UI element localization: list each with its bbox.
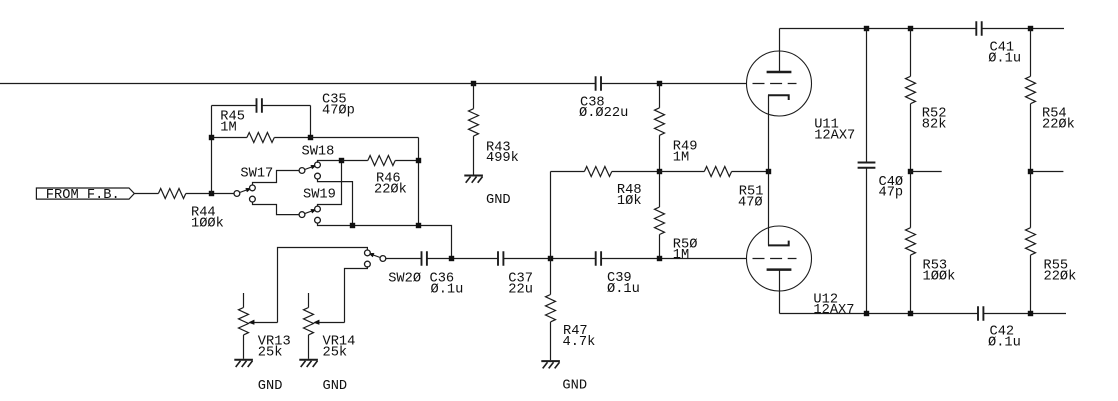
tube U12 envelope [747,226,812,291]
svg-text:GND: GND [258,379,283,394]
node junction bus/R46 vertical [416,223,421,228]
tube U11 plate lead [779,29,781,73]
svg-text:22Øk: 22Øk [1044,270,1077,285]
svg-text:1Øk: 1Øk [617,194,642,209]
wiper arrow VR14 [318,322,345,324]
tube U12 plate [767,268,792,271]
wire SW19 lower throw to bus [318,223,452,259]
resistor R52 [906,76,916,103]
node junction R46 left [339,158,344,163]
switch SW18 common contact [299,168,305,174]
switch SW19 lower throw contact [315,217,321,223]
node junction R47/R48 rail [548,256,553,261]
tube U11 envelope [747,51,812,116]
wire SW20 upper throw to VR13 wiper [278,248,368,323]
capacitor C40 [858,162,876,164]
ground at R47 [541,360,560,362]
svg-text:1M: 1M [673,248,689,263]
wire plate rail U11 to C41 [780,28,977,30]
wire SW20 common to C36 [386,258,422,260]
wire port to R44 [134,193,158,195]
capacitor C37 [497,251,499,266]
wire R51 lead right [732,171,769,173]
switch SW17 common contact [234,191,240,197]
wire R45 junction to right vertical [311,137,419,139]
tube U12 cathode [768,241,789,246]
node junction C40 bottom [864,311,869,316]
wire R43 bottom lead [473,136,475,175]
wire R44 to SW17 [186,193,234,195]
capacitor C42 [977,306,979,321]
wire C35 branch right [262,105,311,107]
wire R50 bottom lead [659,235,661,259]
wire tap stub R52/R53 [911,171,942,173]
switch SW19 upper throw contact [315,206,321,212]
capacitor C41 [975,21,977,36]
wire R47 bottom lead [550,322,552,360]
node junction R53 bottom [908,311,913,316]
ground at VR13 [234,359,253,361]
switch SW20 lever [371,254,380,257]
node junction R54 top [1028,26,1033,31]
node junction mid row R48/R49/R50/R51 [657,169,662,174]
svg-text:SW17: SW17 [240,166,273,181]
svg-text:82k: 82k [922,118,947,133]
resistor R53 [906,228,916,255]
resistor R46 [368,156,395,166]
svg-text:Ø.1u: Ø.1u [988,51,1021,66]
wire R43 top lead [473,84,475,109]
wire R46 lead left [342,160,368,162]
svg-text:22Øk: 22Øk [374,182,407,197]
tube U11 plate [767,71,792,74]
wire input net from page edge [0,83,596,85]
svg-text:12AX7: 12AX7 [813,303,854,318]
node junction bus drop on AC wire [449,256,454,261]
switch SW18 lower throw contact [315,173,321,179]
wire R54 top lead [1030,29,1032,77]
node junction R54/R55 tap [1028,169,1033,174]
svg-text:47Øp: 47Øp [322,104,355,119]
node junction C40 top [864,26,869,31]
svg-text:GND: GND [323,379,348,394]
wire R54 bottom lead [1030,104,1032,172]
wire R49 top lead [659,84,661,108]
wire R53 top lead [910,172,912,228]
wire C37 to C39 [503,258,595,260]
switch SW18 lever [304,166,313,169]
resistor R50 [655,207,665,235]
wire SW17 lower throw to SW19 common [253,202,300,215]
resistor R43 [469,109,479,136]
node junction R45 left [209,135,214,140]
potentiometer VR14 top stub [308,293,310,308]
wire right rail C35 to R45 [310,106,312,138]
switch SW19 common contact [299,212,305,218]
svg-text:1M: 1M [673,151,689,166]
resistor R44 [158,189,185,199]
node junction R44/SW17/feedback rail [209,191,214,196]
wire C36 to C37 [427,258,498,260]
wire R46 lead right [395,160,418,162]
capacitor C36 [421,251,423,266]
wire C40 bottom lead [866,168,868,314]
svg-text:Ø.1u: Ø.1u [607,282,640,297]
wire C35 branch left [212,105,257,107]
switch SW20 lower throw contact [365,261,371,267]
switch SW20 common contact [380,256,386,262]
wire C40 top lead [866,29,868,163]
resistor R49 [655,108,665,136]
resistor R55 [1026,228,1036,255]
wire SW20 lower throw to VR14 wiper [345,266,368,322]
wire R48 lead right [612,171,660,173]
svg-text:12AX7: 12AX7 [814,128,855,143]
wire SW18 lower throw to bus [318,179,353,225]
node junction R50 bottom [657,256,662,261]
port FROM F.B. [36,188,134,199]
potentiometer VR13 bottom lead [243,335,245,359]
wire SW18 upper throw to R46 node [318,161,342,163]
potentiometer VR14 bottom lead [308,335,310,359]
switch SW20 upper throw contact [365,250,371,256]
node junction R45 right [308,135,313,140]
node junction bus/SW18 branch [350,223,355,228]
ground at R43 [464,175,483,177]
wire cathode column U11 to U12 [768,95,770,245]
potentiometer VR14 element [304,308,314,335]
wire R49 bottom lead [659,135,661,171]
svg-text:Ø.1u: Ø.1u [988,335,1021,350]
svg-text:47Ø: 47Ø [738,195,763,210]
wire C39 to U12 grid [601,258,747,260]
tube U12 plate lead [779,270,781,314]
wire SW17 upper throw to SW18 common [253,171,300,186]
wire R53 bottom lead [910,255,912,313]
wire R46 node down to SW19 upper throw [318,161,342,207]
resistor R45 [247,133,274,143]
wire right vertical down to switch bus [418,138,420,226]
svg-text:22Øk: 22Øk [1042,118,1075,133]
tube U11 grid (dashed) [753,83,797,85]
wire bottom rail U12 to C42 [780,313,979,315]
resistor R48 [584,167,611,177]
potentiometer VR13 element [239,308,249,335]
node junction R49 top [657,81,662,86]
svg-text:GND: GND [486,193,511,208]
svg-text:1M: 1M [220,121,236,136]
node junction cathode node [766,169,771,174]
node junction R52/R53 tap [908,169,913,174]
tube U11 cathode [768,95,789,100]
svg-text:Ø.1u: Ø.1u [431,282,464,297]
svg-text:GND: GND [562,379,587,394]
svg-text:47p: 47p [879,186,904,201]
svg-text:FROM F.B.: FROM F.B. [46,188,120,203]
svg-text:1ØØk: 1ØØk [191,217,224,232]
wire C41 to R54 top [982,28,1064,30]
capacitor C39 [595,251,597,266]
resistor R51 [704,167,731,177]
wire C38 to U11 grid [601,83,747,85]
wire R45 lead left [212,137,247,139]
svg-text:25k: 25k [258,346,283,361]
node junction R55 bottom [1028,311,1033,316]
wire R45 lead right [274,137,310,139]
resistor R47 [546,295,556,322]
wire R52 bottom lead [910,104,912,172]
wire R48 lead left [551,171,585,173]
wire tap stub R54/R55 [1031,171,1064,173]
resistor R54 [1026,76,1036,103]
svg-text:25k: 25k [323,346,348,361]
node junction R43 top [471,81,476,86]
svg-text:4.7k: 4.7k [563,335,596,350]
wire R51 lead left [660,171,705,173]
wire R55 top lead [1030,172,1032,228]
wire R48 rail vertical [550,172,552,259]
wire R55 bottom lead [1030,255,1032,313]
node junction R52 top [908,26,913,31]
svg-text:22u: 22u [508,282,533,297]
switch SW17 lever [239,189,248,192]
node junction R46 right [416,158,421,163]
svg-text:SW18: SW18 [302,145,335,160]
switch SW18 upper throw contact [315,162,321,168]
switch SW19 lever [304,210,313,213]
wire R52 top lead [910,29,912,77]
svg-text:Ø.Ø22u: Ø.Ø22u [579,106,628,121]
svg-text:499k: 499k [486,151,519,166]
wire left rail up from R44 junction [211,106,213,194]
switch SW17 lower throw contact [250,196,256,202]
svg-text:SW19: SW19 [303,188,336,203]
wire R50 top lead [659,172,661,208]
capacitor C38 [595,76,597,91]
tube U12 grid (dashed) [753,258,797,260]
switch SW17 upper throw contact [250,185,256,191]
capacitor C35 [256,98,258,113]
wiper arrow VR13 [253,322,278,324]
wire R47 top lead [550,259,552,295]
ground at VR14 [299,359,318,361]
potentiometer VR13 top stub [243,293,245,308]
svg-text:SW2Ø: SW2Ø [388,272,421,287]
svg-text:1ØØk: 1ØØk [923,270,956,285]
wire C42 to R55 bottom [983,313,1066,315]
